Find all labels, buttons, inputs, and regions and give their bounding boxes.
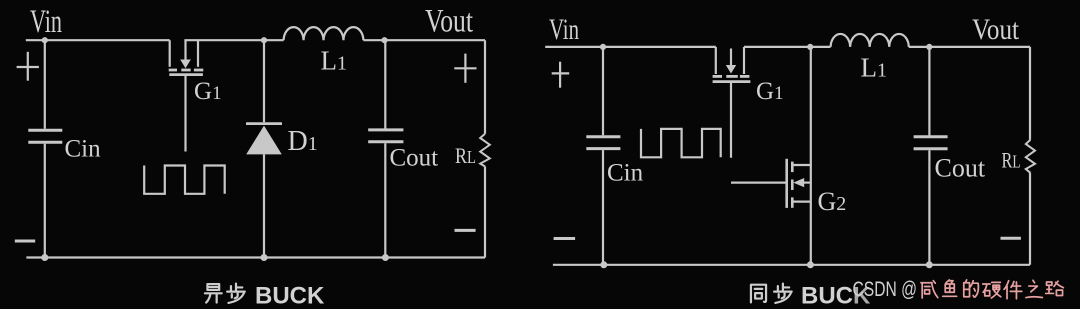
svg-text:Vout: Vout bbox=[425, 4, 473, 40]
svg-text:Vin: Vin bbox=[30, 4, 62, 40]
svg-text:Cin: Cin bbox=[607, 160, 644, 187]
svg-text:Cout: Cout bbox=[935, 154, 986, 183]
svg-text:G1: G1 bbox=[756, 78, 784, 105]
svg-text:RL: RL bbox=[1002, 147, 1021, 172]
svg-text:Cin: Cin bbox=[65, 136, 102, 163]
svg-text:G1: G1 bbox=[194, 78, 222, 105]
svg-text:Vout: Vout bbox=[972, 13, 1020, 46]
svg-text:Vin: Vin bbox=[549, 13, 579, 46]
svg-text:Cout: Cout bbox=[390, 145, 439, 172]
svg-text:CSDN @: CSDN @ bbox=[853, 278, 918, 301]
svg-text:BUCK: BUCK bbox=[255, 283, 325, 309]
svg-text:RL: RL bbox=[455, 143, 476, 168]
